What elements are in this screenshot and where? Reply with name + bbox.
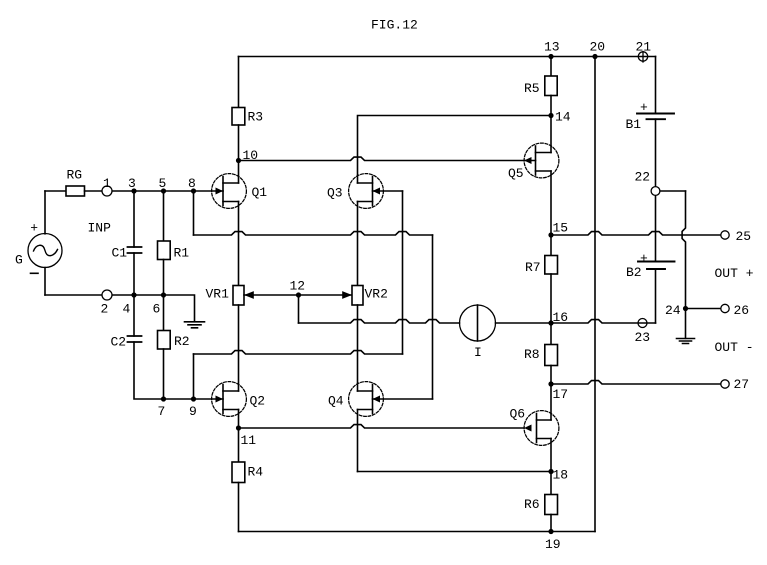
svg-text:27: 27 xyxy=(734,377,750,392)
wire R7 to R8 xyxy=(550,274,552,345)
svg-text:23: 23 xyxy=(635,330,651,345)
node 21 terminal circle xyxy=(638,52,647,61)
node 7 xyxy=(161,396,166,401)
node 24 xyxy=(683,306,688,311)
wire node 16 to node 23 and B2 xyxy=(551,320,656,323)
svg-text:C1: C1 xyxy=(112,246,128,261)
svg-text:12: 12 xyxy=(290,279,306,294)
wire R5 to Q5 drain xyxy=(550,96,552,153)
wire bottom gate row to Q2 xyxy=(164,398,224,400)
wire R3 bottom to Q1 drain xyxy=(238,125,240,183)
wire B1 chain top xyxy=(655,57,657,114)
wire y=235 cross wire to x=432.5 xyxy=(194,232,433,235)
wire R1 top lead xyxy=(163,191,165,241)
wire node 11 row to Q6 gate xyxy=(239,425,525,428)
node 17 xyxy=(548,381,553,386)
svg-text:B2: B2 xyxy=(626,265,642,280)
terminal 26 circle xyxy=(721,304,729,312)
node 3 xyxy=(131,188,136,193)
svg-text:R6: R6 xyxy=(524,497,540,512)
svg-text:25: 25 xyxy=(736,229,752,244)
current source I xyxy=(460,305,496,341)
node 16 xyxy=(548,320,553,325)
signal source G xyxy=(28,234,62,268)
svg-text:RG: RG xyxy=(67,168,83,183)
wire Q5 source to R7 xyxy=(550,171,552,256)
svg-text:Q5: Q5 xyxy=(508,166,524,181)
battery B1 xyxy=(637,113,674,115)
resistor R3 xyxy=(232,108,245,126)
svg-text:8: 8 xyxy=(188,176,196,191)
sine wave of G xyxy=(34,245,58,255)
wire node 17 to terminal 27 xyxy=(551,381,721,384)
wire node 22 to x=685.5 xyxy=(656,190,686,192)
svg-text:G: G xyxy=(15,253,23,268)
wire x=432.5 drop to Q4 gate xyxy=(432,235,434,399)
node 19 xyxy=(548,529,553,534)
svg-text:OUT -: OUT - xyxy=(715,340,754,355)
svg-text:R7: R7 xyxy=(525,260,541,275)
svg-text:VR1: VR1 xyxy=(206,287,230,302)
wire VR2 top lead from Q3 source xyxy=(357,202,359,286)
wire C2 bottom lead to node 7 xyxy=(134,342,164,399)
svg-text:22: 22 xyxy=(635,170,651,185)
wire C1 bottom lead xyxy=(133,253,135,295)
svg-text:11: 11 xyxy=(241,433,257,448)
svg-text:10: 10 xyxy=(243,148,259,163)
ground (right) xyxy=(677,339,695,344)
wire Q3 drain up and over to node 14 xyxy=(358,116,552,184)
svg-text:26: 26 xyxy=(734,303,750,318)
svg-text:3: 3 xyxy=(128,176,136,191)
wire node 24 to right ground xyxy=(685,309,687,339)
wire Q3 gate lead xyxy=(373,190,403,192)
wire x=402.5 riser to Q3 gate xyxy=(402,191,404,354)
transistor Q5 xyxy=(524,143,559,178)
wire x=685.5 drop with hop to node 24 xyxy=(682,191,685,309)
node 15 xyxy=(548,232,553,237)
node 14 xyxy=(548,113,553,118)
node 10 xyxy=(236,158,241,163)
svg-text:R8: R8 xyxy=(524,347,540,362)
svg-text:B1: B1 xyxy=(626,117,642,132)
terminal 25 circle xyxy=(721,231,729,239)
node 18 xyxy=(548,469,553,474)
wire node 15 to terminal 25 xyxy=(551,232,721,235)
wire node 9 riser xyxy=(193,354,195,399)
wire node 12 drop xyxy=(298,295,300,323)
svg-text:R4: R4 xyxy=(248,465,264,480)
wire C1 top lead xyxy=(133,191,135,247)
capacitor C2 xyxy=(128,336,142,342)
svg-text:INP: INP xyxy=(88,221,112,236)
wire G top lead xyxy=(44,191,46,234)
wire y=471.5 to node 18 xyxy=(358,471,552,473)
wire y=323 to current source I xyxy=(299,320,460,323)
wire R8 to Q6 drain xyxy=(550,366,552,421)
wire VR1 wiper link to VR2 xyxy=(244,294,352,296)
minus sign of G xyxy=(31,272,39,274)
ground (left) xyxy=(185,322,205,328)
transistor Q4 xyxy=(349,382,384,417)
wire input row bottom y=295 to left ground xyxy=(45,295,195,322)
node 8 xyxy=(191,188,196,193)
wire G bottom lead xyxy=(44,268,46,296)
wire B1 to B2 chain through node 22 xyxy=(655,119,657,261)
svg-text:FIG.12: FIG.12 xyxy=(371,18,418,33)
svg-text:R5: R5 xyxy=(524,81,540,96)
node 22 terminal circle xyxy=(651,187,660,196)
wire negative rail x=595 xyxy=(594,57,596,532)
potentiometer VR2 xyxy=(352,286,363,306)
resistor R1 xyxy=(158,241,171,260)
wire Q6 source to R6 xyxy=(550,439,552,495)
svg-text:2: 2 xyxy=(101,302,109,317)
svg-text:OUT +: OUT + xyxy=(715,266,754,281)
node 21 vertical stub xyxy=(642,52,644,63)
svg-text:I: I xyxy=(474,345,482,360)
capacitor C1 xyxy=(128,247,142,253)
svg-text:Q2: Q2 xyxy=(250,394,266,409)
node 1 terminal circle xyxy=(102,186,112,196)
transistor Q2 xyxy=(212,382,247,417)
svg-text:Q3: Q3 xyxy=(327,186,343,201)
wire VR2 to Q4 drain xyxy=(357,305,359,391)
wire node 11 to R4 xyxy=(238,428,240,462)
svg-text:19: 19 xyxy=(545,537,561,552)
svg-text:17: 17 xyxy=(553,387,569,402)
wire R6 to bottom rail xyxy=(550,515,552,532)
transistor Q6 xyxy=(524,411,559,446)
svg-text:Q6: Q6 xyxy=(510,407,526,422)
node 11 xyxy=(236,425,241,430)
resistor R2 xyxy=(158,331,171,350)
wire R2 bottom lead xyxy=(163,349,165,399)
svg-text:18: 18 xyxy=(553,468,569,483)
arrow into VR1 xyxy=(244,291,254,299)
svg-text:7: 7 xyxy=(158,404,166,419)
wire node 10 to Q5 gate xyxy=(239,157,536,160)
svg-text:R1: R1 xyxy=(174,246,190,261)
wire y=354 cross wire to x=402.5 xyxy=(194,351,403,354)
svg-text:+: + xyxy=(640,251,648,266)
svg-text:16: 16 xyxy=(553,310,569,325)
resistor R4 xyxy=(232,462,245,483)
wire B2 bottom lead xyxy=(655,269,657,323)
wire VR1 to Q2 drain xyxy=(238,305,240,391)
wire bottom rail y=531.5 xyxy=(239,531,596,533)
resistor R7 xyxy=(545,256,558,275)
resistor R8 xyxy=(545,345,558,366)
resistor R5 xyxy=(545,76,557,96)
battery B2 xyxy=(638,261,675,263)
wire node 24 to terminal 26 xyxy=(686,308,722,310)
svg-text:Q1: Q1 xyxy=(252,185,268,200)
wire Q4 gate lead xyxy=(373,398,433,400)
svg-text:Q4: Q4 xyxy=(328,394,344,409)
resistor RG xyxy=(66,186,85,196)
transistor Q3 xyxy=(349,174,384,209)
arrow into VR2 xyxy=(342,291,352,299)
svg-text:1: 1 xyxy=(103,176,111,191)
node 20 xyxy=(592,54,597,59)
svg-text:R2: R2 xyxy=(174,334,190,349)
wire RG to Q1 gate xyxy=(85,190,224,192)
node 9 xyxy=(191,396,196,401)
svg-text:14: 14 xyxy=(555,110,571,125)
node 23 terminal circle xyxy=(638,319,647,328)
wire top positive rail y=56.5 xyxy=(239,56,656,58)
node 12 xyxy=(296,292,301,297)
wire current source I to node 16 xyxy=(496,322,552,324)
wire R4 bottom lead xyxy=(238,483,240,532)
svg-text:6: 6 xyxy=(153,302,161,317)
svg-text:4: 4 xyxy=(123,302,131,317)
svg-text:+: + xyxy=(30,220,38,235)
svg-text:20: 20 xyxy=(590,40,606,55)
svg-text:R3: R3 xyxy=(248,110,264,125)
svg-text:+: + xyxy=(640,100,648,115)
svg-text:5: 5 xyxy=(159,176,167,191)
wire C2 top lead xyxy=(133,295,135,336)
svg-text:9: 9 xyxy=(189,404,197,419)
wire Q4 source drop xyxy=(357,410,359,472)
node 6 xyxy=(161,292,166,297)
potentiometer VR1 xyxy=(233,286,244,306)
resistor R6 xyxy=(545,495,558,515)
wire node 8 drop xyxy=(193,191,195,235)
wire input row top y=191 xyxy=(45,190,66,192)
wire R3 top lead xyxy=(238,57,240,108)
node 13 xyxy=(548,54,553,59)
wire Q1 source to VR1 xyxy=(238,202,240,286)
transistor Q1 xyxy=(212,174,247,209)
wire R2 top lead xyxy=(163,295,165,331)
svg-text:C2: C2 xyxy=(111,335,127,350)
node 2 terminal circle xyxy=(102,290,112,300)
node 4 xyxy=(131,292,136,297)
wire Q2 source to node 11 xyxy=(238,410,240,429)
svg-text:VR2: VR2 xyxy=(365,287,388,302)
wire R1 bottom lead xyxy=(163,260,165,296)
svg-text:15: 15 xyxy=(553,221,569,236)
wire node 13 to R5 xyxy=(550,57,552,77)
terminal 27 circle xyxy=(721,380,729,388)
node 5 xyxy=(161,188,166,193)
svg-text:21: 21 xyxy=(636,40,652,55)
svg-text:13: 13 xyxy=(544,40,560,55)
svg-text:24: 24 xyxy=(665,303,681,318)
